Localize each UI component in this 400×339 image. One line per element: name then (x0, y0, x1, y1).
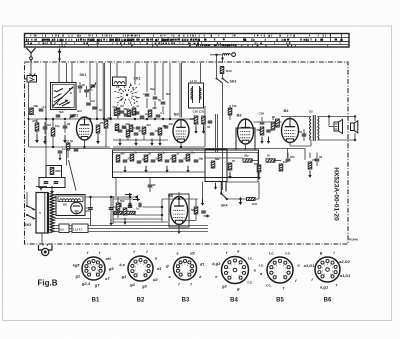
label B5 (168, 193, 174, 198)
ground (165, 166, 168, 173)
resistor R26 (158, 151, 165, 162)
resistor R36 (254, 162, 261, 172)
ground (202, 127, 205, 134)
bus tag (59, 224, 69, 233)
ground (228, 172, 231, 179)
capacitor C2 (84, 86, 93, 97)
wire (215, 114, 217, 153)
socket label B3 (182, 298, 190, 304)
resistor R1 (32, 119, 39, 131)
wire (128, 134, 160, 140)
wire (262, 117, 273, 121)
mains transformer T1 secondary winding (47, 193, 54, 234)
resistor R7 (132, 104, 139, 115)
capacitor C35 (136, 203, 141, 211)
tube B2 (173, 120, 189, 143)
ground (186, 166, 189, 173)
capacitor C33 (119, 203, 121, 208)
wire (113, 218, 162, 220)
wire (222, 74, 224, 79)
wire (169, 63, 171, 119)
capacitor C27 (286, 155, 295, 161)
wire (227, 153, 258, 183)
wire (117, 108, 119, 119)
wire (318, 116, 356, 118)
wire (179, 63, 181, 118)
wire (216, 63, 218, 79)
caption Fig.B (38, 279, 58, 288)
feedback arrow (204, 214, 210, 218)
capacitor C53 (136, 127, 141, 129)
wire (134, 63, 136, 85)
node (161, 206, 163, 216)
capacitor C6 (56, 110, 64, 117)
wire (216, 55, 218, 63)
capacitor C55 (86, 99, 95, 105)
rectifier box (56, 195, 85, 216)
resistor R12 (126, 126, 135, 137)
wire (287, 149, 289, 159)
resistor R28 (172, 152, 179, 163)
wire (117, 197, 119, 218)
resistor R3 (96, 121, 104, 133)
wire (245, 144, 247, 150)
wire (162, 198, 198, 200)
switch SK1 box (51, 83, 77, 110)
node (328, 115, 356, 141)
IF transformer S1 box (189, 83, 204, 108)
label SK4 (221, 204, 228, 208)
ground (260, 137, 263, 144)
wire (254, 121, 282, 123)
wire (113, 118, 196, 120)
switch SK5 (26, 205, 35, 220)
wire (30, 62, 32, 76)
ground (50, 186, 54, 194)
resistor R12 (190, 116, 198, 124)
loudspeaker LS1 (334, 120, 343, 134)
wire (196, 124, 204, 130)
wire (227, 198, 259, 200)
resistor R37 (279, 160, 288, 171)
capacitor C19 (134, 129, 142, 135)
ground (134, 139, 137, 146)
wire (34, 218, 37, 220)
resistor R40 (220, 67, 232, 74)
wire (113, 214, 162, 216)
capacitor C27 (151, 157, 161, 162)
switch SK3 (216, 78, 229, 83)
wire (28, 82, 30, 147)
wire (204, 106, 206, 147)
detector module box (205, 149, 227, 182)
wire (85, 207, 90, 209)
potentiometer arrow (125, 193, 132, 197)
wire (217, 114, 219, 153)
node (215, 54, 223, 60)
wire (113, 171, 205, 173)
wire (115, 178, 117, 197)
wire (29, 118, 114, 120)
capacitor C21 (150, 129, 160, 135)
wire (51, 187, 53, 190)
ground (58, 154, 61, 161)
ground (43, 136, 47, 144)
dial scale figure 151 (59, 44, 66, 48)
node (134, 118, 171, 120)
schematic border (25, 62, 349, 244)
resistor R42 (116, 199, 125, 210)
resistor R14 (228, 104, 237, 115)
wire (97, 133, 99, 136)
wire (252, 160, 281, 162)
node (28, 118, 86, 148)
capacitor C10 (161, 102, 166, 112)
heater bus (51, 226, 208, 232)
resistor R32 (243, 154, 252, 163)
component box 2 (39, 178, 65, 188)
dial cord (69, 160, 77, 191)
label B1 (74, 113, 80, 118)
wire (154, 63, 156, 95)
coil box L1 (113, 77, 127, 86)
wire (67, 148, 306, 150)
tube B3 (238, 119, 254, 144)
screen box B3 (236, 128, 255, 150)
resistor R47 (115, 124, 119, 131)
wire (84, 140, 86, 147)
capacitor C16 (156, 111, 165, 117)
wire (222, 55, 224, 63)
ground (239, 197, 243, 205)
capacitor C33 (194, 157, 204, 162)
resistor R24 (144, 152, 151, 163)
capacitor C54 (39, 105, 47, 111)
wire (289, 117, 291, 119)
ground (150, 139, 153, 146)
wire (66, 149, 68, 166)
wire (202, 182, 204, 200)
resistor R4 (104, 116, 112, 128)
switch SK2 rotary wafer (114, 79, 145, 109)
resistor R9 (148, 106, 157, 117)
resistor R46 (127, 110, 131, 117)
ground (144, 166, 147, 173)
node (89, 196, 131, 198)
wire (85, 196, 134, 198)
capacitor C17 (266, 126, 275, 132)
resistor R2 (51, 124, 60, 136)
capacitor C43 (85, 197, 93, 226)
wire (41, 233, 43, 244)
B5 shield loop (169, 194, 189, 227)
label C30 C31 (193, 110, 205, 114)
node (89, 118, 112, 120)
capacitor C29 (165, 157, 175, 162)
wire (161, 199, 163, 222)
capacitor C28 (315, 155, 323, 161)
resistor R49 (30, 104, 39, 115)
tube socket B6 (304, 250, 352, 289)
switch SK4 (220, 182, 228, 201)
wire (34, 209, 37, 211)
tube socket B4 (212, 249, 256, 291)
dial lamp LA1 (232, 53, 236, 57)
resistor R48 (129, 125, 133, 132)
capacitor C42 (74, 149, 79, 151)
wire (113, 152, 258, 154)
wire (288, 153, 310, 159)
AF section box (113, 150, 259, 178)
capacitor C23 (123, 157, 134, 162)
ground (194, 127, 197, 134)
wire (29, 146, 111, 148)
wire (52, 119, 54, 147)
tube B1 (77, 117, 93, 140)
resistor R44 (191, 207, 198, 214)
capacitor C44 (109, 197, 119, 220)
wire (105, 128, 107, 147)
capacitor C31 (179, 157, 189, 162)
capacitor C50 (120, 107, 130, 113)
wire (110, 63, 112, 119)
transformer tap (54, 218, 91, 220)
resistor R5 (116, 104, 124, 115)
capacitor C14 (140, 112, 148, 118)
resistor R30 (186, 151, 195, 162)
capacitor C34 (129, 203, 131, 208)
wire (102, 63, 104, 119)
wire (58, 62, 60, 83)
tube B4 (282, 119, 299, 143)
socket label B4 (230, 298, 238, 304)
label SK1 (80, 73, 87, 77)
dial cord spring (223, 54, 231, 55)
trimmer C7 (70, 114, 75, 119)
B+ arrow (134, 195, 138, 199)
capacitor C46 (201, 211, 206, 213)
wire (354, 117, 356, 122)
wire (178, 225, 180, 230)
print code P1846 (349, 238, 358, 242)
wire (113, 206, 162, 208)
tube socket B5 (259, 251, 301, 291)
label B3 (237, 113, 243, 118)
capacitor C5 (63, 121, 71, 133)
dial scale graduation marks (26, 34, 343, 47)
mains transformer T1 primary (36, 193, 48, 234)
capacitor C41 (58, 147, 66, 153)
label cluster (77, 87, 171, 113)
capacitor C16 (207, 121, 212, 129)
wire (26, 192, 28, 206)
wire (113, 139, 168, 141)
resistor R35 (228, 159, 235, 170)
wire (222, 83, 224, 190)
label SK3 (230, 80, 237, 84)
wire (329, 117, 334, 127)
resistor R27 (114, 208, 123, 215)
capacitor C23 (164, 122, 174, 128)
capacitor C8 (145, 94, 150, 108)
wire (67, 140, 69, 158)
wire (200, 63, 202, 83)
wire (180, 143, 182, 148)
trimmer C3 (91, 82, 97, 88)
ground (308, 171, 311, 178)
ground (109, 218, 126, 226)
capacitor C17 (118, 126, 128, 132)
tube B5 (170, 197, 187, 225)
output transformer S2 (309, 110, 319, 142)
wire (181, 63, 183, 118)
resistor R17 (272, 115, 279, 127)
resistor R14 (142, 123, 151, 134)
resistor R33 (266, 154, 275, 163)
label B2 (174, 112, 180, 117)
node (180, 146, 182, 148)
capacitor C52 (122, 122, 131, 128)
capacitor C1 (78, 82, 86, 93)
antenna A2 (58, 49, 62, 63)
resistor R15 (257, 127, 264, 135)
resistor R22 (130, 151, 137, 162)
capacitor C56 (92, 107, 97, 109)
resistor R41 (247, 198, 258, 207)
socket label B6 (324, 298, 332, 304)
capacitor C29 (148, 183, 156, 187)
wire (179, 199, 196, 221)
wire (113, 221, 168, 223)
capacitor C12 (124, 110, 132, 116)
label SK5 (25, 223, 32, 227)
resistor R28 (127, 211, 136, 214)
wire (162, 63, 164, 100)
wire (258, 182, 260, 200)
wire (96, 63, 98, 119)
resistor R16 (271, 118, 279, 130)
wire (113, 198, 133, 200)
capacitor C25 (137, 158, 148, 163)
resistor R34 (211, 157, 220, 168)
wire (116, 63, 118, 77)
node (45, 118, 66, 120)
ground (267, 137, 270, 144)
ground (63, 135, 67, 143)
wire (104, 63, 106, 119)
wire (54, 196, 56, 198)
wire (45, 63, 47, 147)
external loudspeaker LS2 (351, 121, 358, 133)
IF coil L2 (191, 86, 193, 103)
resistor R45 (113, 105, 118, 116)
tube socket B2 (119, 249, 162, 288)
wire (89, 63, 91, 100)
resistor R38 (308, 158, 317, 169)
wire (36, 119, 38, 135)
antenna A1 (27, 48, 36, 62)
resistor R43 (123, 208, 127, 215)
capacitor C51 (135, 112, 140, 114)
ground (257, 173, 260, 180)
resistor R26 (66, 139, 73, 150)
rectifier B6s (71, 202, 83, 214)
wire (178, 192, 180, 197)
bus tag (72, 224, 88, 233)
drawing number HX523A-00-01-20 (333, 167, 340, 221)
socket label B1 (92, 298, 100, 304)
label L4 L5 (190, 79, 198, 83)
IF coil L3 (200, 86, 202, 103)
wire (112, 196, 114, 224)
wire (290, 140, 311, 146)
ground (96, 136, 100, 144)
capacitor C45 (128, 197, 133, 207)
dial scale frame (25, 34, 350, 48)
wire (318, 139, 356, 141)
mains earth arrow (36, 187, 47, 191)
tube socket B3 (165, 251, 205, 287)
potentiometer arrow (133, 198, 140, 202)
wire (146, 63, 148, 92)
node (239, 198, 241, 200)
ground (123, 166, 126, 173)
wire (113, 146, 205, 148)
resistor R20 (116, 152, 125, 163)
wire (229, 105, 231, 120)
label SK2 (134, 77, 141, 81)
resistor R16 (158, 124, 167, 135)
dial cord wire (210, 54, 223, 56)
socket label B2 (137, 298, 145, 304)
resistor R13 (202, 116, 206, 124)
socket label B5 (276, 298, 284, 304)
ground (118, 139, 121, 146)
node (178, 198, 180, 200)
wire (205, 157, 243, 159)
wire (304, 149, 306, 161)
ground (177, 226, 181, 234)
mains plug icon (39, 244, 53, 256)
wire (71, 63, 73, 83)
wire (316, 153, 318, 167)
label B4 (284, 108, 290, 113)
ground (214, 183, 217, 190)
wire (149, 178, 151, 193)
capacitor C4 (43, 122, 52, 134)
capacitor C9 (153, 97, 158, 108)
antenna terminal bush (25, 74, 37, 83)
ground (158, 139, 161, 146)
capacitor C20 (299, 129, 306, 141)
ground (35, 135, 39, 143)
wire (354, 133, 356, 140)
switch SK1 contacts (53, 87, 74, 108)
wire (45, 147, 47, 166)
capacitor C38 (259, 112, 265, 124)
tube socket B1 (73, 250, 115, 287)
wire (281, 116, 311, 118)
ground (201, 199, 204, 206)
component box 1 (46, 166, 62, 178)
wire (66, 63, 68, 83)
